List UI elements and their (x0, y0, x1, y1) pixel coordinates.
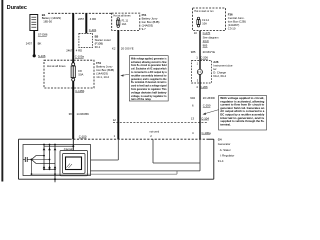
svg-text:185-50: 185-50 (43, 19, 52, 23)
starter motor label (95, 35, 111, 50)
svg-text:10: 10 (194, 31, 198, 35)
svg-text:C-100: C-100 (79, 134, 87, 138)
BJB middle label (142, 13, 160, 31)
svg-text:C-100a: C-100a (202, 131, 212, 135)
svg-text:14 RD/BK: 14 RD/BK (77, 112, 90, 116)
connector C-100 (79, 134, 87, 138)
svg-text:10A: 10A (202, 21, 207, 25)
svg-text:C-290: C-290 (203, 104, 211, 108)
left note arrow (120, 74, 129, 76)
wire 1 label K2 20 OG/YE (112, 47, 134, 51)
wire 2 inside generator (91, 139, 201, 171)
charge indicator lamp (197, 69, 202, 74)
connector C-270 (203, 31, 211, 35)
svg-text:13: 13 (191, 116, 195, 120)
stator windings (31, 156, 56, 164)
svg-text:30-1: 30-1 (95, 45, 101, 49)
voltage regulator I (60, 151, 88, 176)
dashed power bus (48, 12, 112, 14)
pin 6 connector C-290 (192, 104, 211, 108)
svg-text:91-4: 91-4 (218, 159, 224, 163)
svg-text:C-105b: C-105b (75, 89, 85, 93)
wire label 985 20 RD/YE (191, 50, 215, 54)
wire A labels 2467 4 RD (66, 48, 82, 52)
svg-text:I: Regulator: I: Regulator (220, 153, 235, 157)
svg-text:13-D: 13-D (203, 39, 209, 43)
svg-text:Duratec: Duratec (7, 5, 27, 11)
wire A lower (72, 81, 74, 139)
svg-text:C-101: C-101 (89, 28, 97, 32)
svg-text:C-104: C-104 (201, 116, 209, 120)
svg-text:G4: G4 (218, 137, 222, 141)
generator G4 case (19, 139, 214, 179)
ground splice S-106 (33, 54, 46, 58)
generator stator frame (23, 145, 91, 176)
svg-text:turn off the relay.: turn off the relay. (131, 98, 152, 101)
battery B1 label (42, 13, 61, 23)
svg-text:13-1, 13-2: 13-1, 13-2 (96, 75, 109, 79)
wire battery to ground (33, 31, 35, 56)
svg-text:20 RD/YE: 20 RD/YE (203, 50, 216, 54)
rectifier diodes (43, 144, 57, 171)
BJB fuse box top middle (112, 13, 140, 30)
generator connector C-100a dashed line (70, 138, 207, 140)
svg-text:C-206: C-206 (200, 56, 208, 60)
connector C-105b (75, 89, 85, 93)
wire 1 inside generator (91, 139, 119, 160)
starter motor B5 box (79, 33, 93, 47)
rectifier bottom bus (44, 168, 55, 170)
pin 2 stub inside (153, 139, 200, 163)
generator legend (218, 137, 235, 163)
svg-text:2657: 2657 (78, 17, 85, 21)
svg-text:Hot at all times: Hot at all times (47, 64, 66, 68)
left note box (129, 56, 168, 101)
svg-text:4 RD: 4 RD (90, 17, 96, 21)
BJB left label (96, 61, 114, 79)
see diagram note (203, 35, 220, 43)
svg-text:20 OG/YE: 20 OG/YE (121, 47, 134, 51)
svg-text:50A: 50A (78, 72, 83, 76)
svg-text:terminal.: terminal. (220, 123, 231, 126)
svg-text:C-270: C-270 (203, 31, 211, 35)
connector label S7-D86 (38, 33, 48, 37)
wire B+ into regulator (72, 139, 74, 150)
svg-text:38: 38 (69, 112, 73, 116)
wire B labels 2657 4 RD (78, 17, 96, 21)
fuse F2.14 10A (197, 17, 210, 27)
instrument cluster box (192, 61, 212, 84)
battery B1 (30, 15, 38, 31)
pin 4 connector C-100a (192, 131, 211, 135)
node B+ (72, 145, 74, 147)
svg-text:A: Stator: A: Stator (220, 148, 231, 152)
fuse F1.11 10A (117, 18, 129, 28)
ground stub G case (54, 169, 56, 182)
BJB fuse box left (44, 60, 94, 88)
wire label 2437 BK (26, 42, 42, 46)
page edge band (1, 0, 3, 182)
svg-text:9-7: 9-7 (142, 27, 146, 31)
cluster label (213, 60, 233, 78)
connector C-104 label (201, 116, 209, 120)
wire 2 CJB to generator (199, 31, 201, 70)
svg-text:BK: BK (38, 42, 42, 46)
rectifier top bus (44, 145, 73, 147)
splice 985 (203, 44, 208, 48)
svg-text:K2: K2 (112, 47, 116, 51)
svg-text:C3-10: C3-10 (228, 27, 236, 31)
ground bus (31, 160, 177, 176)
svg-text:4 RD: 4 RD (76, 48, 82, 52)
svg-text:2437: 2437 (26, 42, 33, 46)
svg-text:S7-D86: S7-D86 (38, 33, 48, 37)
svg-text:C-105a: C-105a (75, 55, 85, 59)
capacitor C1 (23, 157, 32, 162)
svg-text:904: 904 (190, 96, 195, 100)
svg-text:C-206: C-206 (200, 85, 208, 89)
right note box (219, 96, 267, 131)
svg-text:60-2, 60-4: 60-2, 60-4 (213, 74, 226, 78)
svg-text:Hot at all times: Hot at all times (113, 14, 131, 18)
wire label 904 20 LB/RD (190, 96, 215, 100)
connector C-104 dashed line (113, 121, 207, 123)
svg-text:20 LB/RD: 20 LB/RD (203, 96, 215, 100)
fuse F8 50A (71, 63, 83, 81)
svg-text:F1.11: F1.11 (122, 18, 129, 22)
CJB label (228, 13, 246, 31)
pin 4 connector C-206 below (196, 85, 208, 89)
svg-text:S-106: S-106 (38, 54, 46, 58)
right note arrow (203, 110, 219, 115)
svg-text:Generator: Generator (218, 142, 231, 146)
svg-text:985: 985 (191, 50, 196, 54)
wire A battery feed (72, 13, 74, 62)
svg-text:2467: 2467 (66, 48, 73, 52)
svg-text:10A: 10A (122, 22, 127, 26)
svg-text:12: 12 (113, 118, 117, 122)
wire 1 fuse to generator (117, 30, 119, 139)
pin 1 connector C-206 (196, 56, 208, 60)
svg-text:F2.14: F2.14 (202, 18, 209, 22)
svg-text:Hot in start or run: Hot in start or run (194, 10, 214, 13)
svg-text:985: 985 (203, 44, 208, 48)
CJB fuse box top right (193, 8, 226, 31)
connector C-101 (89, 28, 97, 32)
wire label 38 14 RD/BK (69, 112, 89, 116)
wire B starter feed (85, 13, 87, 33)
connector C-105a (75, 55, 85, 59)
